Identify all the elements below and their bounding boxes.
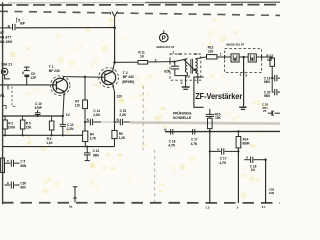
wire R9 to rail3: [114, 139, 116, 147]
svg-text:(BF450): (BF450): [122, 80, 134, 84]
wire R4 to rail3: [84, 142, 86, 147]
resistor R4 2,7K: [83, 131, 88, 142]
node junctions rail2: [4, 134, 6, 136]
resistor R12 220: [207, 55, 218, 59]
pin tick filter in: [224, 55, 226, 59]
wire to primary top: [174, 59, 187, 62]
svg-text:1.3: 1.3: [205, 205, 209, 209]
resistor R7 110: [83, 100, 88, 109]
svg-text:10K: 10K: [215, 116, 221, 120]
node A junction: [113, 26, 116, 29]
svg-text:2,7K: 2,7K: [90, 137, 97, 141]
connector pin bottom middle: [73, 187, 78, 203]
connector box on left frame: [1, 158, 5, 173]
svg-text:470P: 470P: [35, 106, 43, 110]
capacitor C17 4,7N: [193, 129, 195, 135]
svg-text:SCHWELLE: SCHWELLE: [173, 116, 192, 120]
node junction at R7 top: [84, 76, 86, 78]
svg-text:A1: A1: [178, 52, 182, 56]
tuning arrow: [183, 59, 195, 70]
svg-text:BP: BP: [20, 22, 25, 26]
pin tick at box entry: [169, 59, 171, 63]
svg-text:99203-310 97: 99203-310 97: [226, 42, 244, 46]
corner mark left frame: [3, 106, 7, 109]
pin tick filter out: [261, 55, 263, 59]
capacitor C16 4,7N: [171, 129, 173, 135]
svg-text:07: 07: [0, 31, 4, 35]
node junction rail1 end: [62, 115, 64, 117]
node junction C tune: [173, 61, 175, 63]
light gray band wire: [130, 122, 280, 123]
svg-text:68N: 68N: [20, 164, 26, 168]
ceramic filter dashed box: [225, 49, 262, 73]
svg-text:2: 2: [155, 58, 157, 62]
wire to R13: [262, 57, 273, 58]
ZF-Verstaerker box corner: [194, 77, 204, 107]
svg-text:4,7N: 4,7N: [168, 144, 175, 148]
ceramic filter F1: [231, 54, 239, 62]
wire filter out: [256, 56, 261, 58]
wire R14 down to border: [237, 148, 239, 203]
resistor R9 1,2K: [112, 130, 117, 138]
wire input at y28: [0, 27, 12, 29]
wire node to R7: [84, 77, 86, 100]
top frame dashed line 2: [0, 11, 280, 15]
top frame dashed line 1: [0, 4, 280, 6]
IF transformer dashed box: [170, 54, 201, 80]
svg-text:99203-315 97: 99203-315 97: [156, 45, 174, 49]
capacitor C15 2,2N: [115, 121, 120, 123]
internal ground rail: [175, 75, 188, 77]
svg-text:62P: 62P: [164, 70, 170, 74]
wire T1 base: [0, 84, 56, 86]
svg-text:4,7N: 4,7N: [219, 161, 226, 165]
svg-text:BF 440: BF 440: [123, 75, 134, 79]
resistor R2 100K: [3, 120, 7, 129]
svg-text:1: 1: [220, 53, 222, 57]
svg-text:2,2N: 2,2N: [93, 113, 100, 117]
capacitor C20 68N: [272, 89, 280, 95]
svg-text:1,2K: 1,2K: [119, 136, 126, 140]
jack ground arm: [5, 75, 10, 79]
node junction C14: [84, 121, 86, 123]
node junction filter tap: [242, 56, 244, 58]
rail1 wire y116: [3, 115, 63, 117]
capacitor C30 680 lower: [5, 184, 11, 186]
shield dashed line left: [12, 87, 17, 107]
wire R11 horizontal: [115, 61, 138, 63]
T2 shield dashed circle: [99, 68, 119, 88]
node junction R11: [113, 61, 116, 64]
svg-text:68N: 68N: [264, 80, 270, 84]
capacitor C13 68N: [84, 147, 91, 161]
wire R12 to filter box: [217, 56, 225, 58]
capacitor C5 8P (input coupling): [13, 24, 16, 30]
wire R7 to C14 node: [84, 109, 86, 131]
wire T1 emitter down: [63, 92, 64, 116]
svg-text:47P: 47P: [31, 76, 38, 80]
svg-text:1: 1: [172, 50, 174, 54]
svg-text:68N: 68N: [93, 153, 99, 157]
wire filter tap down to ground: [243, 57, 245, 107]
resistor R5 15K: [20, 120, 25, 129]
svg-text:110: 110: [75, 104, 80, 108]
svg-text:R1: R1: [0, 94, 4, 98]
ceramic filter F2: [248, 54, 256, 62]
svg-text:5.1: 5.1: [262, 205, 266, 209]
wire R11 to IF transformer: [148, 61, 174, 63]
wire secondary top out: [195, 57, 206, 59]
resistor R6 1,1K: [49, 121, 54, 130]
svg-text:8A 15Ø: 8A 15Ø: [0, 40, 12, 44]
wire C18 junction down to border: [265, 160, 267, 203]
ground symbol filter tap: [239, 106, 246, 108]
top frame solid line: [8, 2, 145, 4]
svg-text:680K: 680K: [242, 142, 250, 146]
wire T2 emitter down: [113, 84, 115, 92]
capacitor C21 4,7N bottom: [210, 150, 221, 152]
capacitor C12 2,2N: [60, 116, 66, 135]
svg-text:2,2N: 2,2N: [119, 113, 126, 117]
svg-text:T 1: T 1: [49, 65, 54, 69]
svg-text:68N: 68N: [264, 94, 270, 98]
svg-text:25: 25: [263, 109, 267, 113]
wire into filter 1: [225, 56, 231, 58]
wire secondary bottom down: [195, 72, 197, 83]
resistor R11 1K: [138, 61, 148, 65]
svg-text:330: 330: [267, 58, 272, 62]
svg-text:5a: 5a: [69, 204, 73, 208]
svg-text:12V: 12V: [116, 94, 123, 98]
wire from C5 to node A: [16, 27, 115, 29]
svg-text:15K: 15K: [26, 125, 32, 129]
rail3 wire y146.6: [3, 146, 115, 148]
wire T1 collector up: [63, 77, 65, 80]
wire node A down to T2 collector: [114, 28, 116, 63]
capacitor C14 2,2N: [85, 121, 90, 123]
capacitor C18 1N: [244, 159, 250, 161]
svg-text:P: P: [162, 36, 166, 42]
module code text block top-left: [0, 31, 12, 44]
antenna Y symbol: [110, 11, 118, 27]
wire T2 emitter to R9: [114, 122, 116, 130]
fold dashed line lower: [154, 150, 156, 202]
capacitor C9 47P: [24, 67, 30, 85]
transformer secondary winding: [195, 59, 197, 73]
test point P symbol: [160, 33, 169, 42]
svg-text:2,2N: 2,2N: [67, 127, 74, 131]
phono jack socket: [1, 68, 8, 75]
svg-text:ZF-Verstärker: ZF-Verstärker: [195, 91, 243, 101]
main rail y131.5: [165, 130, 280, 132]
node junctions rail1: [37, 115, 39, 117]
resistor R15 10K with series cap: [206, 109, 214, 118]
svg-text:N2: N2: [186, 74, 190, 78]
fold dashed line upper: [142, 86, 144, 150]
svg-text:100K: 100K: [8, 125, 16, 129]
svg-text:3: 3: [181, 81, 183, 85]
speckle background: [10, 18, 268, 198]
resistor R14 680K: [237, 130, 239, 132]
rail2 wire y135.3: [3, 134, 83, 136]
svg-text:4,7N: 4,7N: [191, 142, 198, 146]
capacitor 62P (resonance): [171, 62, 179, 76]
svg-text:220: 220: [208, 49, 213, 53]
left frame vertical line: [2, 2, 4, 204]
svg-text:19A 21: 19A 21: [1, 63, 12, 67]
wire between filters: [239, 56, 248, 58]
svg-text:K: K: [8, 25, 11, 29]
transformer primary winding: [185, 59, 187, 73]
wire R15 down to border: [209, 129, 211, 203]
svg-text:A1: A1: [194, 52, 198, 56]
T1 shield dashed circle: [50, 76, 70, 96]
svg-text:680: 680: [20, 186, 25, 190]
wire T1 collector to T2 base: [64, 76, 105, 79]
ground symbol transformer: [185, 76, 187, 87]
wire R13 down: [271, 66, 273, 92]
resistor R13 330: [270, 58, 275, 66]
svg-text:1,1K: 1,1K: [46, 141, 53, 145]
capacitor C5 68N lower: [5, 162, 11, 164]
svg-text:2: 2: [240, 73, 242, 77]
transformer core lines: [190, 59, 192, 74]
svg-text:BF 240: BF 240: [49, 69, 60, 73]
node junction C15: [113, 121, 115, 123]
capacitor C19 68N: [271, 77, 273, 79]
tick below base wire: [7, 85, 9, 90]
svg-text:9A 377: 9A 377: [0, 35, 11, 39]
svg-text:3: 3: [245, 73, 247, 77]
bottom frame dashed line: [2, 202, 280, 204]
wire T2 collector up: [113, 62, 115, 71]
svg-text:10N: 10N: [269, 191, 274, 195]
faint continuation C14: [101, 121, 115, 123]
